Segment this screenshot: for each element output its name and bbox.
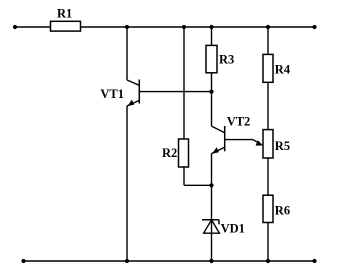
svg-text:R4: R4 xyxy=(275,63,291,77)
svg-text:VT2: VT2 xyxy=(227,114,251,128)
svg-text:R5: R5 xyxy=(275,139,290,153)
svg-text:R3: R3 xyxy=(219,52,234,66)
svg-text:R6: R6 xyxy=(275,204,290,218)
svg-text:VT1: VT1 xyxy=(100,87,124,101)
svg-text:R2: R2 xyxy=(162,146,177,160)
svg-text:VD1: VD1 xyxy=(221,221,245,235)
svg-text:R1: R1 xyxy=(57,6,72,20)
